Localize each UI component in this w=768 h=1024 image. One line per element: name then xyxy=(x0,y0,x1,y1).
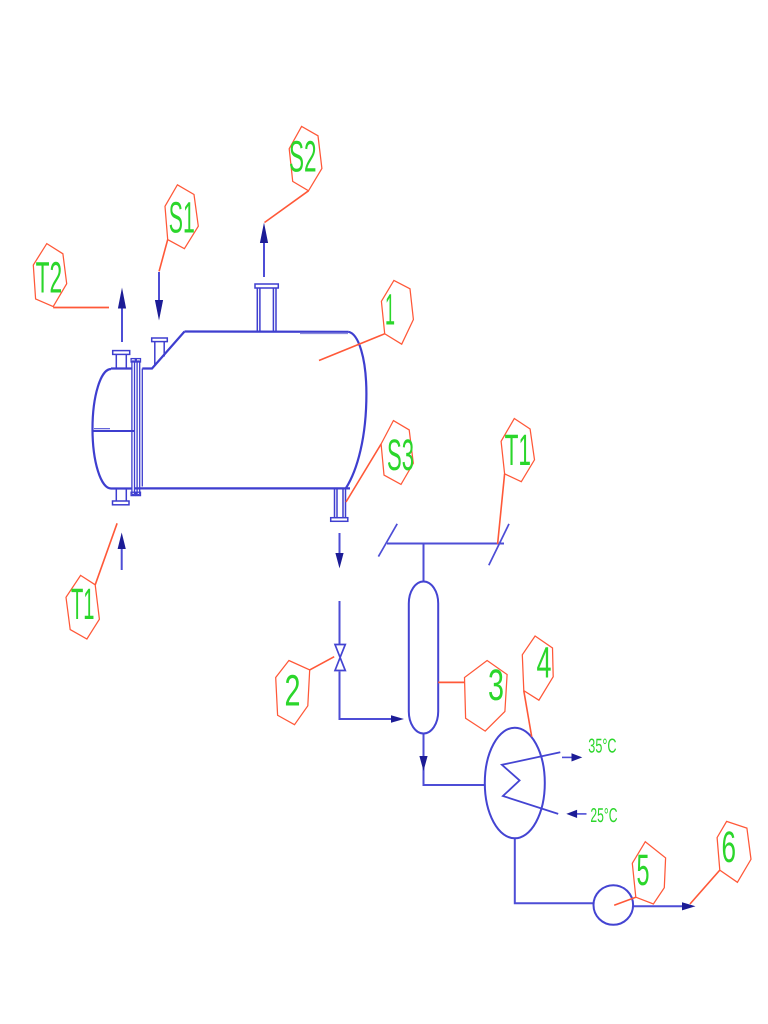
svg-text:5: 5 xyxy=(637,846,650,895)
svg-text:T1: T1 xyxy=(505,426,531,475)
wire column top stub xyxy=(423,544,425,582)
leader 2 xyxy=(310,657,335,670)
svg-text:S3: S3 xyxy=(387,431,414,480)
wire pump outlet xyxy=(633,905,683,907)
svg-text:25°C: 25°C xyxy=(590,805,617,827)
svg-text:4: 4 xyxy=(537,639,552,688)
svg-text:S1: S1 xyxy=(169,194,195,243)
tag hexagon 2 xyxy=(276,661,310,725)
nozzle N2 (bottom-left T1) xyxy=(113,489,130,505)
tag hexagon T1 column xyxy=(501,419,534,482)
wire valve to column with corner xyxy=(340,672,395,720)
heat exchanger E1 coil zigzag xyxy=(502,752,560,814)
leader 1 xyxy=(319,334,385,361)
vessel V1 main shell bottom xyxy=(135,487,350,489)
arrow S1 in (down) shaft xyxy=(158,272,160,302)
arrowhead S3 xyxy=(335,553,343,568)
vessel V1 small shell top xyxy=(111,367,132,369)
arrowhead column bottom xyxy=(419,756,427,771)
leader 5 xyxy=(614,897,636,905)
wire 25C in stub xyxy=(576,813,587,815)
wire exchanger bottom to pump xyxy=(515,838,594,903)
tag hexagon 1 xyxy=(381,280,413,344)
arrowhead pump outlet xyxy=(682,902,696,910)
leader T1 column xyxy=(498,474,505,544)
pipe-rack right slash xyxy=(489,524,509,565)
vessel V1 top seam line xyxy=(300,332,348,334)
svg-text:1: 1 xyxy=(385,286,395,335)
leader S3 xyxy=(346,444,381,502)
tag hexagon 4 xyxy=(522,636,553,700)
svg-text:2: 2 xyxy=(285,667,301,716)
arrowhead 35C (right) xyxy=(572,753,583,761)
leader 6 xyxy=(690,870,720,904)
tag hexagon S3 xyxy=(381,421,413,485)
vessel V1 small shell bottom xyxy=(111,487,132,489)
nozzle N5 (S3 bottom-right) xyxy=(331,488,348,521)
pipe-rack bar xyxy=(387,543,504,545)
svg-text:6: 6 xyxy=(722,823,737,872)
tag hexagon S2 xyxy=(289,126,322,190)
pipe-rack left slash xyxy=(378,524,397,557)
column C1 xyxy=(409,582,438,734)
valve V2 xyxy=(335,645,345,671)
leader S2 xyxy=(265,191,309,223)
arrow T2 out (up) xyxy=(121,309,123,343)
vessel V1 cone transition xyxy=(142,332,184,369)
tag hexagon 5 xyxy=(632,842,665,904)
nozzle N4 (S2 large top) xyxy=(255,284,278,332)
arrow S2 out (up) shaft xyxy=(263,242,265,277)
arrow T1 in (up) shaft xyxy=(121,547,123,570)
vessel V1 pass partition line xyxy=(94,430,135,432)
vessel V1 channel flange stack xyxy=(131,359,142,496)
leader 3 xyxy=(438,681,464,683)
heat exchanger E1 shell xyxy=(485,728,545,839)
wire column bottom to exchanger xyxy=(424,734,485,786)
arrow S3 out (down) shaft xyxy=(339,533,341,554)
pump P1 xyxy=(594,885,634,925)
vessel V1 left head xyxy=(92,369,111,489)
tag hexagon T2 xyxy=(33,244,66,307)
arrowhead S1 xyxy=(155,300,163,321)
arrowhead 25C (left) xyxy=(566,810,577,818)
svg-text:T2: T2 xyxy=(36,254,63,303)
arrowhead T1 xyxy=(118,533,126,550)
leader T1 bottom xyxy=(95,523,117,585)
tag hexagon S1 xyxy=(165,185,198,249)
svg-text:T1: T1 xyxy=(71,580,95,629)
tag hexagon 6 xyxy=(717,821,751,882)
leader T2 xyxy=(53,307,109,309)
arrowhead into column xyxy=(391,715,404,723)
nozzle N3 (S1 small top) xyxy=(152,338,168,366)
tag hexagon T1 bottom xyxy=(66,575,99,639)
svg-text:3: 3 xyxy=(488,661,504,710)
arrowhead S2 xyxy=(260,223,268,244)
wire 35C out stub xyxy=(562,756,573,758)
vessel V1 right head xyxy=(346,332,367,489)
svg-text:S2: S2 xyxy=(289,133,317,182)
leader 4 xyxy=(524,691,532,737)
wire S3 to valve xyxy=(339,601,341,645)
nozzle N1 (T2 top-left) xyxy=(113,351,130,369)
tag hexagon 3 xyxy=(465,661,508,732)
svg-text:35°C: 35°C xyxy=(588,735,616,757)
vessel V1 main shell top xyxy=(185,330,349,332)
arrowhead T2 xyxy=(118,288,126,309)
leader S1 xyxy=(159,240,168,272)
